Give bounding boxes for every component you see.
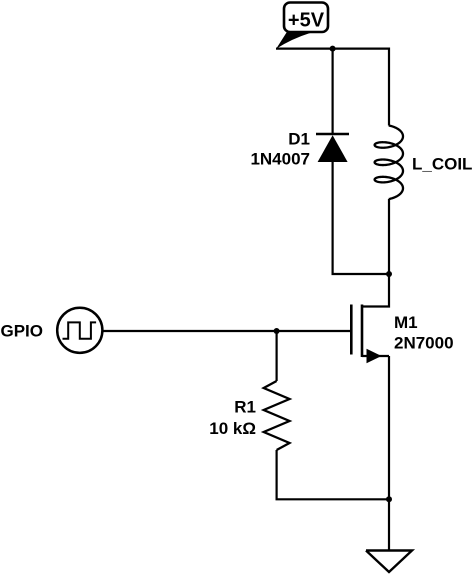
svg-text:GPIO: GPIO <box>0 322 43 341</box>
mosfet M1 <box>351 305 389 364</box>
wire source down <box>388 356 390 499</box>
svg-text:R1: R1 <box>234 398 256 417</box>
svg-text:1N4007: 1N4007 <box>250 150 310 169</box>
wire coil bottom to junction <box>388 199 390 274</box>
source GPIO <box>57 308 102 353</box>
node gate/R1 junction <box>274 328 280 334</box>
node drain junction <box>386 271 392 277</box>
wire top-right corner down to coil <box>388 48 390 126</box>
power flag +5V <box>276 3 328 49</box>
wire junction to ground <box>388 499 390 550</box>
wire junction down to drain <box>362 274 389 307</box>
ground <box>366 551 412 573</box>
svg-text:+5V: +5V <box>288 10 325 32</box>
svg-text:2N7000: 2N7000 <box>394 334 454 353</box>
wire GPIO to gate <box>102 330 350 332</box>
wire +5V to top-right corner <box>276 47 389 49</box>
diode D1 <box>316 134 349 162</box>
svg-text:L_COIL: L_COIL <box>412 155 472 174</box>
node source/R1 junction <box>386 496 392 502</box>
wire diode anode down and right to junction <box>333 162 389 274</box>
resistor R1 <box>264 381 290 450</box>
svg-text:10 kΩ: 10 kΩ <box>209 419 256 438</box>
wire junction down to resistor <box>276 331 278 381</box>
svg-text:D1: D1 <box>288 130 310 149</box>
svg-text:M1: M1 <box>394 313 418 332</box>
wire top junction down to diode cathode <box>332 49 334 133</box>
wire resistor bottom to ground rail <box>277 450 389 499</box>
node top junction <box>330 46 336 52</box>
inductor L_COIL <box>375 126 403 200</box>
